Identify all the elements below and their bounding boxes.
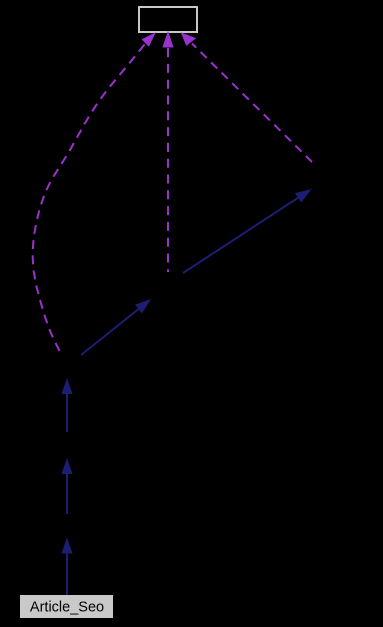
wire: dashed purple curved edge (left node to top box) <box>33 45 145 352</box>
wire: solid blue vertical edge 1 <box>66 394 68 432</box>
node Article_Seo <box>20 595 113 618</box>
arrowhead blue v3 <box>61 538 72 554</box>
wire: solid blue edge (left node to middle node) <box>81 309 139 355</box>
wire: solid blue vertical edge 2 <box>66 474 68 514</box>
arrowhead purple left <box>142 32 156 46</box>
arrowhead blue middle <box>135 299 151 313</box>
arrowhead blue v1 <box>61 378 72 394</box>
arrowhead purple right <box>181 32 196 46</box>
wire: dashed purple diagonal edge (right node to top box) <box>192 44 312 163</box>
arrowhead purple middle <box>162 31 173 48</box>
arrowhead blue right <box>295 189 312 203</box>
node: top box (empty, gray border) <box>139 7 197 32</box>
wire: solid blue edge (middle node to right node) <box>183 198 299 274</box>
wire: solid blue vertical edge 3 <box>66 554 68 596</box>
svg-text:Article_Seo: Article_Seo <box>30 600 104 616</box>
wire: dashed purple vertical edge (middle node to top box) <box>167 48 169 273</box>
arrowhead blue v2 <box>61 458 72 474</box>
